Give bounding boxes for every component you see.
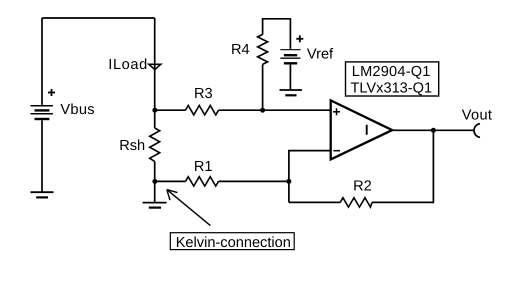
wire R4 top jog to Vref: [263, 19, 291, 49]
svg-text:Vout: Vout: [462, 107, 492, 123]
resistor Rsh: [150, 128, 160, 162]
junction node R1/R2/inverting: [286, 179, 291, 184]
svg-text:TLVx313-Q1: TLVx313-Q1: [350, 81, 432, 97]
op-amp plus input marker: [333, 108, 340, 115]
svg-text:ILoad: ILoad: [108, 57, 148, 73]
resistor R3: [186, 106, 219, 115]
battery Vbus: [31, 106, 53, 119]
annotation arrow to Kelvin point: [167, 190, 211, 226]
svg-text:R1: R1: [194, 159, 213, 175]
svg-text:Vbus: Vbus: [60, 102, 94, 118]
battery Vref: [280, 50, 300, 64]
wire Vref to ground: [289, 65, 291, 91]
wire Vbus to ground: [41, 120, 43, 192]
svg-text:Kelvin-connection: Kelvin-connection: [176, 235, 291, 251]
ground below Vref: [280, 90, 303, 95]
ILoad arrow: [149, 64, 161, 69]
wire R1 net left: [155, 180, 186, 182]
svg-text:Vref: Vref: [307, 47, 334, 63]
op-amp U1 triangle: [331, 100, 393, 159]
junction node R3/Rsh: [152, 108, 157, 113]
resistor R2: [340, 198, 372, 207]
ground below Vbus: [31, 192, 54, 197]
plus sign Vref: [296, 35, 303, 42]
junction node output/feedback: [431, 128, 436, 133]
wire top bus: [42, 17, 155, 19]
wire bottom feedback left: [289, 201, 340, 203]
wire R3 net right to op-amp: [219, 109, 331, 111]
wire left vertical to Vbus: [41, 18, 43, 105]
svg-text:LM2904-Q1: LM2904-Q1: [352, 64, 431, 80]
ground below Rsh node (Kelvin point): [143, 203, 167, 208]
wire Rsh top: [154, 110, 156, 128]
wire Rsh bottom to node: [154, 162, 156, 182]
box around Kelvin-connection label: [170, 233, 294, 250]
wire R3 net left: [155, 109, 186, 111]
svg-text:R4: R4: [231, 42, 250, 58]
wire node to ground: [154, 181, 156, 202]
junction node Rsh/R1/ground (Kelvin): [152, 179, 157, 184]
wire R4 bottom vertical: [262, 64, 264, 110]
off-page connector Vout: [474, 124, 480, 138]
resistor R1: [186, 177, 219, 186]
box around op-amp part numbers: [346, 62, 439, 96]
plus sign Vbus: [48, 89, 55, 96]
wire bottom feedback right: [372, 130, 433, 202]
wire output net: [392, 129, 473, 131]
svg-text:R2: R2: [353, 179, 372, 195]
op-amp minus input marker: [333, 150, 340, 152]
op-amp internal I mark: [366, 125, 368, 135]
junction node R4/R3: [260, 108, 265, 113]
wire inverting input net: [289, 151, 331, 203]
wire ILoad vertical: [154, 18, 156, 110]
svg-text:R3: R3: [194, 86, 213, 102]
svg-text:Rsh: Rsh: [119, 138, 145, 154]
resistor R4: [258, 34, 268, 64]
wire R1 net right: [219, 180, 289, 182]
